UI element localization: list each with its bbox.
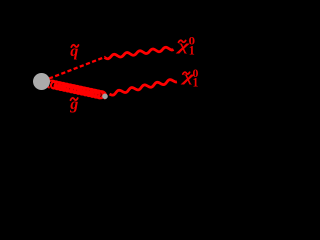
svg-text:1: 1 [193, 74, 199, 89]
svg-text:1: 1 [189, 43, 195, 58]
